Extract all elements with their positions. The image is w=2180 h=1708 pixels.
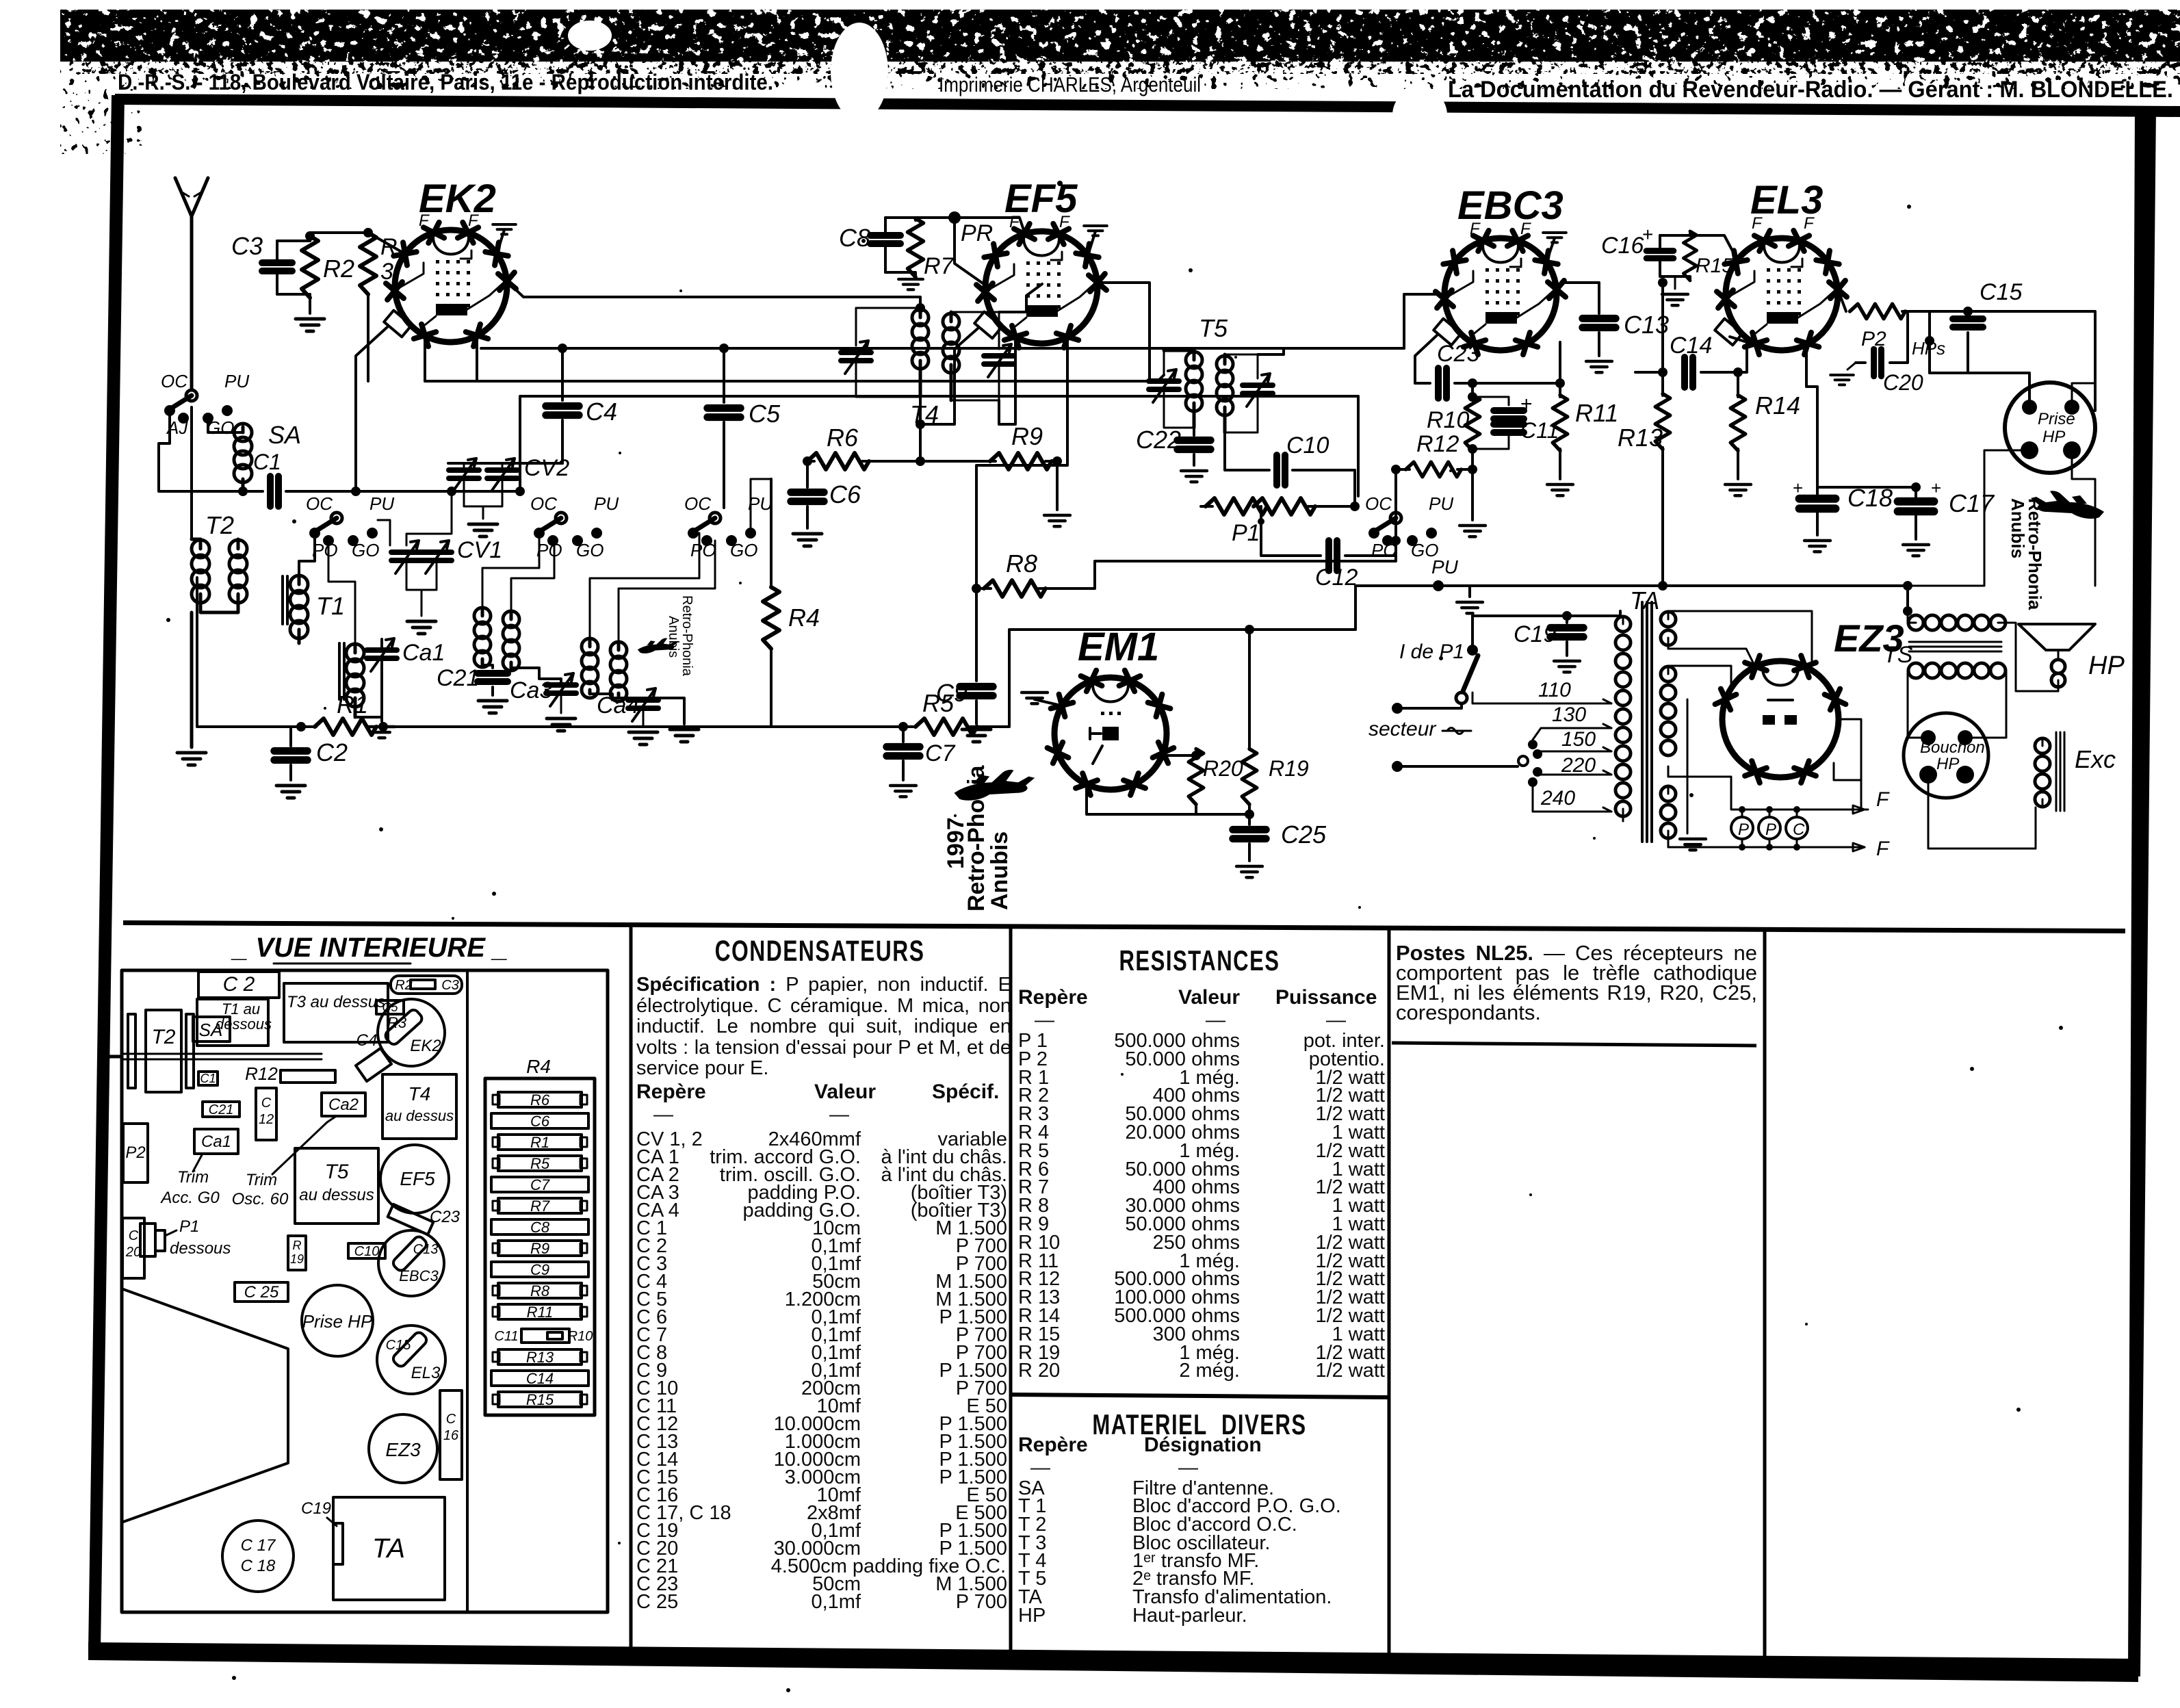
box C20 — [122, 1218, 144, 1278]
svg-text:EF5: EF5 — [400, 1168, 435, 1189]
resistor R13 — [1661, 283, 1664, 396]
strip item R15 — [498, 1392, 582, 1407]
potentiometer P2 — [1850, 304, 1906, 319]
ground C6 — [793, 534, 822, 546]
svg-text:I de P1: I de P1 — [1399, 640, 1464, 663]
svg-text:R19: R19 — [1269, 756, 1309, 781]
box T4 au dessus — [382, 1074, 456, 1139]
svg-text:CV1: CV1 — [457, 537, 502, 563]
bus A : EK2 anode to T4 — [507, 281, 920, 309]
capacitor CV2 variable — [449, 458, 479, 491]
ground T1 — [380, 717, 383, 721]
wire HT vertical right — [1908, 520, 1984, 586]
svg-text:au dessus: au dessus — [299, 1186, 374, 1204]
scan noise band top — [60, 10, 2180, 62]
resistor R5 — [916, 719, 977, 735]
svg-text:C19: C19 — [1514, 621, 1556, 647]
wire T5 bottom to C10 — [1225, 432, 1269, 470]
svg-text:Prise: Prise — [2038, 410, 2075, 428]
capacitor C14 — [1635, 371, 1663, 374]
ground R10 — [1471, 472, 1474, 520]
strip item C8 — [491, 1219, 588, 1234]
svg-text:R11: R11 — [1575, 399, 1618, 427]
svg-text:C17: C17 — [1949, 489, 1995, 517]
transformer T1 second winding — [338, 643, 341, 699]
box C16 — [440, 1390, 462, 1479]
svg-text:EM1: EM1 — [1078, 625, 1159, 669]
ground R2 — [296, 319, 324, 331]
box SA — [193, 1017, 230, 1041]
capacitor C2 — [289, 727, 292, 746]
svg-text:Ca2: Ca2 — [328, 1096, 359, 1114]
svg-text:EK2: EK2 — [410, 1037, 441, 1055]
rule materiel divers — [1011, 1395, 1389, 1397]
wire C14 to EL3 grid — [1730, 337, 1747, 372]
capacitor C12 — [1261, 521, 1321, 556]
svg-text:P1: P1 — [179, 1217, 199, 1236]
strip item R9 — [498, 1241, 582, 1256]
strip item R11 — [498, 1304, 582, 1319]
pilot lamps P P C — [1731, 817, 1753, 839]
svg-text:R10: R10 — [1427, 407, 1469, 433]
capacitor C4 — [561, 348, 564, 400]
resistor R19 — [1248, 630, 1251, 749]
svg-text:_ VUE INTERIEURE _: _ VUE INTERIEURE _ — [231, 933, 508, 963]
svg-text:Prise HP: Prise HP — [302, 1311, 373, 1332]
svg-text:Bouchon: Bouchon — [1920, 738, 1985, 757]
box T1 au dessous — [197, 999, 268, 1046]
ground R11 — [1547, 484, 1573, 495]
resistor strip panel — [485, 1078, 595, 1415]
resistor R12 — [1396, 468, 1410, 471]
strip item C9 — [491, 1262, 588, 1277]
resistor R11 — [1559, 383, 1561, 397]
ground C18 — [1804, 541, 1830, 552]
box C5 small — [376, 1000, 404, 1014]
capacitor C11 — [1472, 397, 1509, 405]
svg-text:F: F — [1876, 838, 1890, 860]
strip item C14 — [491, 1371, 588, 1386]
svg-text:F: F — [1876, 788, 1890, 811]
tube EF5 chassis — [380, 1145, 449, 1213]
wire EL3 anode — [1838, 289, 1846, 311]
svg-text:F: F — [419, 211, 430, 230]
capacitor C6 — [806, 461, 809, 487]
svg-text:C7: C7 — [925, 740, 956, 766]
wire EZ3 plate leads — [1668, 611, 1812, 662]
capacitor C13 — [1563, 283, 1599, 313]
svg-text:R9: R9 — [1011, 422, 1043, 450]
svg-text:C12: C12 — [1315, 565, 1358, 591]
tuning gang plates — [128, 1014, 135, 1088]
resistor R2 — [302, 236, 318, 298]
transformer T5 trimmer right — [1243, 374, 1273, 406]
box T3 au dessus — [284, 983, 388, 1042]
resistor R9 — [990, 453, 1052, 469]
ground C20 — [1847, 363, 1856, 370]
rule postes — [1392, 1043, 1756, 1046]
wire T2 to ground bus — [190, 612, 194, 747]
box C2 — [198, 972, 279, 998]
ground C22 — [1181, 471, 1207, 482]
svg-text:Exc: Exc — [2075, 745, 2116, 773]
ground EM1 grid — [1035, 699, 1058, 705]
transformer T4 trimmer right — [984, 344, 1014, 377]
svg-text:F: F — [1804, 214, 1815, 233]
ground C17 — [1903, 545, 1929, 556]
potentiometer P1 — [1201, 505, 1212, 508]
svg-text:GO: GO — [730, 540, 757, 560]
resistor R4 — [770, 479, 773, 587]
transformer T5 winding right — [1217, 356, 1233, 372]
svg-text:C11: C11 — [1520, 418, 1559, 443]
strip item R5 — [498, 1156, 582, 1171]
wire T5 secondary to EBC3 — [1258, 348, 1284, 354]
box P2 — [123, 1124, 148, 1182]
svg-text:C20: C20 — [1883, 370, 1923, 395]
svg-text:R4: R4 — [788, 604, 820, 632]
chassis divider — [466, 970, 469, 1612]
svg-text:C4: C4 — [586, 398, 617, 426]
svg-text:C2: C2 — [316, 738, 348, 766]
ground PU2 — [1457, 602, 1483, 613]
strip item R6 — [498, 1092, 582, 1107]
svg-text:PR: PR — [961, 220, 993, 246]
svg-text:OC: OC — [161, 371, 187, 391]
ground R9 — [1056, 461, 1059, 510]
transformer T3 winding c — [582, 638, 598, 655]
right border bar — [2128, 110, 2156, 1677]
svg-text:C6: C6 — [530, 1113, 550, 1130]
wire R3 bottom to bus — [367, 294, 369, 381]
transformer T1 winding — [290, 575, 308, 593]
svg-text:Anubis: Anubis — [987, 831, 1013, 910]
box C12 — [256, 1088, 276, 1140]
svg-text:C3: C3 — [231, 232, 263, 260]
svg-text:220: 220 — [1561, 754, 1596, 777]
transformer T4 winding left — [912, 309, 929, 326]
ground EF5 top — [1088, 231, 1095, 255]
wire EK2 cathode pins down — [424, 335, 426, 381]
socket C17 C18 — [222, 1521, 294, 1592]
svg-text:Anubis: Anubis — [666, 616, 681, 658]
strip item R1 — [498, 1135, 582, 1150]
svg-text:R4: R4 — [526, 1056, 551, 1077]
ground Ca3 — [560, 693, 562, 713]
svg-text:OC: OC — [530, 493, 557, 514]
bus D : AVC line — [520, 396, 1358, 496]
svg-text:EBC3: EBC3 — [399, 1267, 439, 1284]
transformer TA secondary bottom — [1661, 786, 1676, 801]
socket Bouchon HP — [1904, 713, 1988, 798]
box C4 diamond — [356, 1048, 391, 1081]
svg-text:CV2: CV2 — [524, 455, 569, 481]
svg-text:OC: OC — [684, 493, 711, 514]
heater F line 1 — [1668, 777, 1865, 810]
wire EL3 cathode to C18 — [1806, 348, 1817, 487]
svg-text:+: + — [1642, 224, 1653, 245]
capacitor CV1 variable — [391, 541, 421, 573]
svg-text:C10: C10 — [354, 1244, 380, 1259]
box R19 — [288, 1236, 306, 1270]
svg-text:150: 150 — [1561, 728, 1596, 751]
capacitor C7 — [902, 727, 905, 742]
wire EF5 bottom pins — [999, 342, 1015, 424]
svg-text:R: R — [293, 1239, 302, 1252]
ground C13 — [1586, 361, 1612, 372]
speaker voice coil — [2051, 660, 2065, 673]
svg-text:PO: PO — [536, 540, 562, 560]
svg-text:19: 19 — [290, 1252, 304, 1266]
transformer T3 winding a — [474, 608, 491, 624]
svg-text:F: F — [468, 211, 479, 230]
svg-text:EK2: EK2 — [419, 177, 496, 221]
svg-text:C13: C13 — [413, 1242, 439, 1257]
tube EBC3 chassis — [378, 1230, 444, 1296]
ground CV1 — [421, 590, 423, 616]
tube EL3 — [1726, 238, 1838, 350]
svg-text:+: + — [1520, 393, 1533, 415]
svg-text:R12: R12 — [1416, 431, 1459, 457]
svg-text:au dessus: au dessus — [385, 1107, 454, 1124]
white scan blobs — [831, 23, 888, 121]
wire EBC3 grid cap — [1415, 335, 1437, 383]
svg-text:C16: C16 — [1601, 233, 1644, 259]
svg-text:PU: PU — [1431, 556, 1459, 578]
svg-text:Ca3: Ca3 — [510, 677, 552, 703]
svg-text:C: C — [261, 1096, 272, 1111]
svg-text:C: C — [129, 1228, 139, 1243]
resistor R10 — [1471, 383, 1474, 397]
capacitor C20 — [1856, 361, 1865, 364]
svg-text:C5: C5 — [382, 1000, 398, 1014]
svg-text:C8: C8 — [839, 224, 870, 252]
svg-text:3: 3 — [380, 259, 393, 285]
wire T4 to EF5 grid — [999, 284, 1042, 312]
svg-text:C14: C14 — [1670, 333, 1712, 359]
ground C19 — [1554, 661, 1580, 672]
svg-text:R2: R2 — [323, 255, 354, 283]
svg-text:T2: T2 — [151, 1026, 175, 1048]
svg-text:F: F — [1520, 220, 1531, 238]
capacitor C17 — [1915, 487, 1917, 497]
svg-text:HP: HP — [2088, 651, 2125, 680]
svg-text:T3 au dessus: T3 au dessus — [287, 993, 385, 1011]
svg-text:TA: TA — [372, 1534, 405, 1564]
strip item R7 — [498, 1198, 582, 1213]
ground EBC3 top — [1546, 238, 1555, 262]
box Ca1 — [194, 1129, 238, 1154]
svg-text:C1: C1 — [253, 450, 281, 474]
resistor R6 — [807, 460, 814, 463]
svg-text:1997: 1997 — [943, 817, 969, 869]
divider condensateurs left — [630, 925, 633, 1659]
transformer T4 trimmer left — [841, 341, 871, 374]
wire bouchon leads — [1908, 691, 1928, 738]
svg-text:P: P — [1765, 820, 1776, 839]
svg-text:HP: HP — [1936, 755, 1959, 773]
svg-text:OC: OC — [1365, 493, 1392, 514]
svg-text:D.-R.-S. - 118, Boulevard Volt: D.-R.-S. - 118, Boulevard Voltaire, Pari… — [118, 70, 773, 94]
svg-text:C 18: C 18 — [241, 1557, 276, 1575]
strip item R8 — [498, 1283, 582, 1298]
svg-text:F: F — [1752, 214, 1763, 233]
ground antenna — [177, 753, 206, 765]
svg-text:C4: C4 — [356, 1031, 378, 1050]
socket prise HP chassis — [302, 1285, 373, 1356]
transformer T3 winding d — [610, 642, 627, 658]
field coil Exc — [2035, 738, 2050, 753]
resistor R3 — [360, 233, 376, 294]
dust specks — [166, 181, 2063, 1692]
svg-text:C21: C21 — [437, 665, 479, 691]
bus C : cathode line to T5 — [425, 380, 1158, 383]
transformer TA core — [1641, 602, 1644, 842]
box Ca2 — [322, 1093, 365, 1116]
speaker HP horn — [2019, 624, 2095, 650]
svg-text:PU: PU — [369, 493, 394, 514]
tube EK2 — [395, 230, 507, 342]
ground C21 — [478, 701, 507, 713]
header rule — [115, 94, 2180, 117]
strip item R13 — [498, 1349, 582, 1364]
svg-text:T5: T5 — [324, 1161, 348, 1183]
svg-text:EZ3: EZ3 — [385, 1439, 421, 1460]
svg-text:C21: C21 — [209, 1102, 234, 1117]
svg-text:C: C — [446, 1412, 456, 1427]
capacitor C1 — [243, 490, 263, 493]
svg-text:Osc. 60: Osc. 60 — [232, 1190, 289, 1208]
capacitor C10 — [1277, 455, 1285, 485]
ground CV2 — [482, 506, 484, 519]
svg-text:R13: R13 — [1618, 424, 1663, 452]
svg-text:P2: P2 — [125, 1143, 145, 1162]
antenna — [175, 178, 208, 216]
svg-text:Retro-Phonia: Retro-Phonia — [2025, 498, 2045, 610]
transformer T4 winding right — [943, 313, 959, 330]
wire EF5 anode right — [1098, 283, 1150, 381]
bottom border bar — [88, 1642, 2138, 1682]
box C1 — [198, 1072, 218, 1085]
svg-text:C6: C6 — [829, 480, 861, 508]
strip item C6 — [491, 1113, 588, 1128]
svg-text:20: 20 — [125, 1245, 141, 1260]
ground R15 — [1674, 276, 1676, 289]
capacitor C23 — [1415, 382, 1430, 385]
svg-text:T1: T1 — [316, 592, 345, 620]
bus E : AVC bottom line — [383, 725, 916, 728]
transformer TA secondary mid — [1661, 667, 1676, 682]
svg-text:La Documentation du Revendeur-: La Documentation du Revendeur-Radio. — G… — [1448, 77, 2173, 103]
svg-text:C22: C22 — [1136, 426, 1181, 454]
ground C2 — [276, 786, 305, 798]
capacitor C19 — [1472, 616, 1567, 623]
svg-text:C23: C23 — [1437, 341, 1479, 367]
svg-text:12: 12 — [259, 1112, 274, 1127]
svg-text:C23: C23 — [430, 1208, 460, 1226]
svg-text:T5: T5 — [1199, 314, 1228, 342]
svg-text:C11: C11 — [494, 1329, 518, 1344]
ground C25 — [1236, 866, 1262, 877]
switch S1 OC/PU antenna — [186, 390, 197, 401]
secteur input dots — [1392, 703, 1403, 714]
svg-text:dessous: dessous — [170, 1239, 231, 1258]
divider postes right — [1763, 931, 1767, 1663]
trimmer Ca1 — [367, 638, 397, 671]
svg-text:C15: C15 — [1980, 279, 2022, 305]
svg-text:+: + — [1793, 478, 1803, 498]
dial cord line — [122, 1053, 322, 1055]
ground C9 — [962, 729, 991, 742]
switch S5 phono — [1390, 513, 1401, 523]
ground T3 — [619, 698, 684, 724]
svg-text:PU: PU — [1429, 493, 1453, 514]
svg-text:SA: SA — [268, 421, 301, 449]
svg-text:16: 16 — [443, 1428, 459, 1443]
wire EZ3 cathode out — [1834, 719, 1861, 780]
trimmer Ca3 — [546, 673, 576, 706]
svg-text:R1: R1 — [337, 690, 368, 719]
box T2 — [146, 1010, 181, 1092]
wire EF5 grid cap — [920, 328, 978, 424]
capacitor C25 — [1248, 814, 1251, 825]
svg-text:R8: R8 — [1006, 549, 1037, 578]
svg-text:R3: R3 — [387, 1014, 407, 1031]
svg-text:R7: R7 — [924, 253, 955, 279]
tube EK2 chassis — [378, 999, 445, 1066]
transformer T5 trimmer left — [1149, 370, 1179, 402]
strip item C7 — [491, 1177, 588, 1192]
transformer T5 winding left — [1186, 352, 1202, 368]
svg-text:C 2: C 2 — [223, 973, 255, 996]
svg-text:R20: R20 — [1203, 756, 1243, 781]
wire antenna ticks — [182, 192, 189, 196]
wire prise HP leads — [2072, 383, 2095, 407]
svg-text:C10: C10 — [1286, 432, 1329, 458]
svg-text:Ca1: Ca1 — [201, 1133, 231, 1151]
tube EL3 chassis — [377, 1325, 445, 1394]
box C10 — [348, 1243, 385, 1258]
resistor R1 — [197, 578, 316, 727]
chassis outline — [122, 970, 608, 1612]
svg-text:TA: TA — [1630, 586, 1659, 614]
capacitor C5 — [723, 348, 725, 402]
svg-text:C5: C5 — [749, 400, 781, 428]
wire T2 branch — [190, 407, 193, 539]
watermark anubis plane 2 — [955, 770, 1035, 801]
bus B : screen line to EBC3 — [481, 347, 1404, 350]
svg-text:SA: SA — [199, 1020, 223, 1040]
wire EL3 output net — [1968, 311, 2095, 411]
svg-text:PO: PO — [690, 540, 716, 560]
svg-text:GO: GO — [352, 540, 379, 560]
divider resistances right — [1388, 929, 1391, 1661]
svg-text:R14: R14 — [1755, 391, 1800, 419]
svg-text:EL3: EL3 — [411, 1364, 441, 1382]
switch S3 PO/GO oscillator — [556, 513, 567, 523]
svg-text:130: 130 — [1552, 703, 1586, 726]
tube EM1 — [1054, 677, 1167, 790]
separator schematic/tables — [123, 920, 2125, 933]
wire HT bus to TA — [1355, 586, 1908, 630]
svg-text:+: + — [1931, 478, 1941, 498]
svg-text:HP: HP — [2042, 428, 2065, 446]
transformer T3 winding b — [503, 611, 519, 627]
svg-text:Ca1: Ca1 — [402, 640, 445, 666]
trimmer Ca4 — [628, 688, 658, 721]
ground EK2 top — [497, 230, 504, 254]
svg-text:R6: R6 — [827, 424, 859, 452]
